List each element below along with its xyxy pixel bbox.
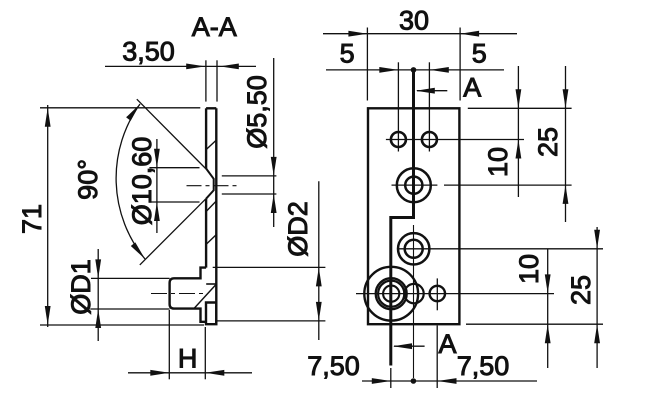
- svg-text:A: A: [463, 73, 481, 103]
- svg-text:10: 10: [483, 147, 513, 177]
- svg-text:10: 10: [514, 254, 544, 284]
- svg-text:7,50: 7,50: [307, 351, 360, 381]
- svg-text:3,50: 3,50: [122, 36, 175, 66]
- svg-text:ØD1: ØD1: [66, 259, 96, 315]
- svg-text:A: A: [438, 329, 456, 359]
- svg-text:30: 30: [399, 5, 429, 35]
- svg-text:5: 5: [340, 38, 355, 68]
- svg-text:H: H: [178, 343, 198, 373]
- svg-text:5: 5: [472, 38, 487, 68]
- svg-text:Ø5,50: Ø5,50: [242, 75, 272, 149]
- svg-text:Ø10,60: Ø10,60: [127, 137, 157, 226]
- svg-text:A-A: A-A: [192, 12, 237, 42]
- svg-text:7,50: 7,50: [457, 351, 510, 381]
- svg-text:71: 71: [17, 204, 47, 234]
- svg-text:25: 25: [566, 275, 596, 305]
- svg-text:25: 25: [533, 127, 563, 157]
- svg-text:ØD2: ØD2: [283, 201, 313, 257]
- svg-text:90°: 90°: [73, 159, 103, 200]
